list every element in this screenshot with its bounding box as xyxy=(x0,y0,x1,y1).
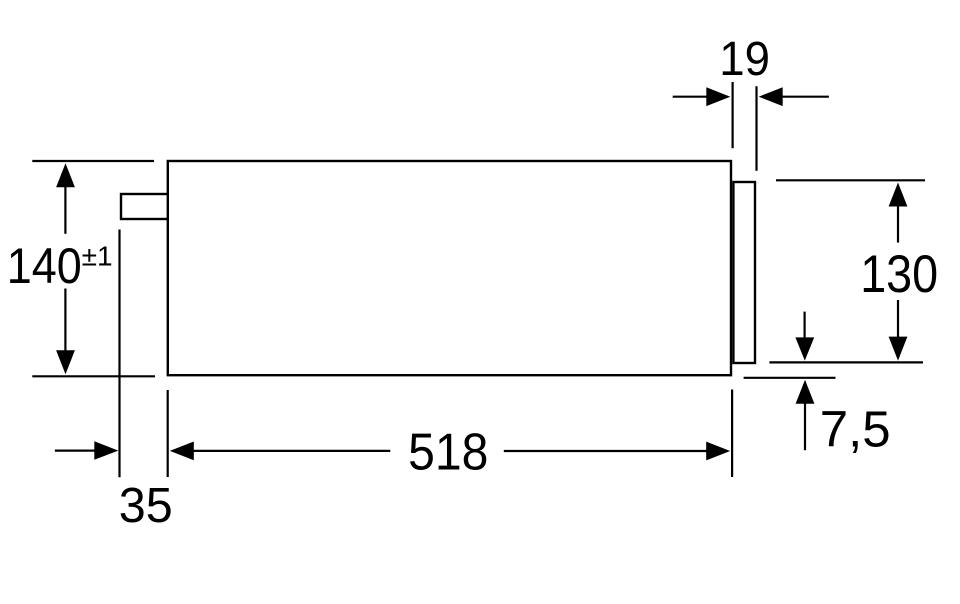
dim 130: bottom reference line xyxy=(769,361,923,363)
svg-text:±1: ±1 xyxy=(82,241,113,272)
dim 130: bottom arrowhead xyxy=(889,337,908,361)
dim 140: upper arrowhead xyxy=(56,163,75,187)
dim 140: lower stem xyxy=(64,289,66,353)
dim 518: left arrowhead xyxy=(170,442,194,461)
dim 140: top reference line xyxy=(32,160,154,162)
dim 130: upper stem xyxy=(897,205,899,243)
dim 7,5: lower stem xyxy=(804,402,806,450)
dim 19: right arrowhead xyxy=(759,87,783,106)
svg-text:19: 19 xyxy=(719,32,770,85)
dim 518: right arrowhead xyxy=(706,442,730,461)
dim 518: right dimension line xyxy=(504,450,707,452)
dim 7,5: lower reference line xyxy=(744,377,836,379)
dim 518: left dimension line xyxy=(192,450,390,452)
svg-text:518: 518 xyxy=(408,423,488,481)
dim 19: right extension line xyxy=(755,86,757,170)
dim 19: left extension line xyxy=(731,82,733,148)
dim 130: top arrowhead xyxy=(889,183,908,207)
dim 35: left extension line xyxy=(118,230,120,478)
dim 140: upper stem xyxy=(64,186,66,234)
dim 518: left extension line xyxy=(167,390,169,477)
front panel on right side xyxy=(733,182,755,363)
dim 130: top reference line xyxy=(776,179,925,181)
dim 19: left arrowhead xyxy=(706,87,730,106)
dim 35: arrowhead pointing right xyxy=(94,441,118,460)
dim 7,5: upper stem xyxy=(803,312,805,340)
dim 19: right arrow line xyxy=(781,96,829,98)
svg-text:35: 35 xyxy=(119,479,173,534)
dim 7,5: lower arrowhead pointing up xyxy=(796,380,815,404)
svg-text:140: 140 xyxy=(7,239,82,295)
dim 130: lower stem xyxy=(897,300,899,338)
dim 7,5: upper arrowhead pointing down xyxy=(795,337,814,360)
dim 35: arrow line xyxy=(55,450,96,452)
appliance body outline xyxy=(168,161,731,375)
dim 518: right extension line xyxy=(731,390,733,478)
svg-text:130: 130 xyxy=(860,244,938,303)
svg-text:7,5: 7,5 xyxy=(820,400,891,457)
mains plug stub on left side xyxy=(121,194,168,219)
dim 140: lower arrowhead xyxy=(56,350,75,374)
dim 140: bottom reference line xyxy=(32,375,155,377)
dim 19: left arrow line xyxy=(673,96,708,98)
